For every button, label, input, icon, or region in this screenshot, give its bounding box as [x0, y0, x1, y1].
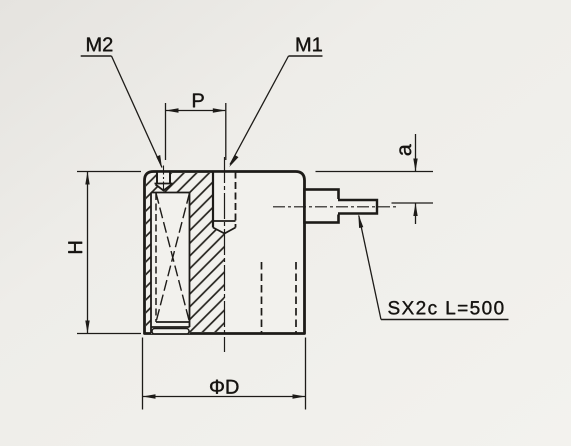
hidden bore lines (dashed) left [261, 262, 263, 333]
dimension H: top arrow [85, 172, 89, 185]
hatch: middle strip between coil and section centerline [190, 193, 225, 333]
dimension P: left arrow [166, 108, 179, 112]
coil bottom edge [156, 321, 190, 323]
label M2 leader arrowhead [156, 155, 162, 168]
coil cavity: white cutout [151, 193, 190, 334]
label M2 underline [81, 55, 112, 57]
label M1 leader arrowhead [229, 155, 238, 167]
threaded hole M1: thread bottom crossbar [213, 220, 236, 222]
coil cavity left wall [150, 193, 152, 334]
dimension H: bottom extension line [77, 333, 141, 335]
dimension H: dimension line [87, 172, 89, 333]
threaded hole M1: right side (hidden, dashed) [235, 172, 237, 228]
hatch: left wall strip [146, 193, 151, 333]
dimension P: left extension line [165, 103, 167, 160]
dimension D: label [210, 380, 238, 394]
dimension D: right extension line [305, 338, 307, 410]
label cable spec leader arrowhead [358, 214, 363, 228]
coil winding cross (X) diagonal 2 [156, 193, 190, 322]
dimension a: lower extension line (cable top) [392, 202, 434, 204]
body outline (cylindrical housing, section view) [145, 172, 305, 334]
label M2 leader line [112, 56, 163, 168]
coil winding cross (X) diagonal 1 [156, 193, 190, 322]
tapped hole M2: slot outline [157, 172, 170, 184]
label M2 text [87, 37, 112, 51]
dimension H: label [68, 242, 82, 253]
cavity inner bottom edge [151, 326, 190, 328]
dimension P: right extension line [225, 103, 227, 160]
dimension a: upper extension line (from body top) [316, 171, 434, 173]
dimension H: bottom arrow [85, 321, 89, 334]
bottom slot (rounded groove) [152, 329, 189, 334]
tapped hole M2: white cutout [155, 173, 173, 191]
threaded hole M1: white cutout [213, 173, 237, 234]
coil left edge (dashed) [155, 193, 157, 322]
threaded hole M1: left side (solid) [212, 172, 214, 228]
label cable spec underline [381, 319, 509, 321]
dimension P: right arrow [213, 108, 226, 112]
threaded hole M1: drill point [213, 228, 236, 234]
centerline of hole M2 [163, 166, 165, 198]
coil right edge [189, 193, 191, 328]
label cable spec text [388, 301, 503, 314]
dimension a: label [399, 144, 411, 155]
dimension D: dimension line [143, 396, 305, 398]
dimension a: upper dimension line with down arrow [415, 134, 417, 171]
connector block on right side [305, 190, 339, 223]
hidden bore lines (dashed) right [295, 262, 297, 333]
cable centerline (dash-dot) [273, 206, 397, 208]
dimension H: top extension line [77, 171, 141, 173]
label M1 underline [289, 55, 323, 57]
label M1 leader line [230, 56, 289, 165]
vertical centerline through M1 / section axis [224, 157, 226, 352]
label cable spec leader line [359, 216, 381, 320]
cable (sheath) white fill over connector edge [337, 199, 378, 215]
dimension P: label [193, 94, 204, 108]
dimension D: left extension line [142, 338, 144, 410]
dimension P: dimension line [166, 110, 225, 112]
label M1 text [297, 38, 322, 52]
tapped hole M2: countersink shoulder and drill point [155, 184, 173, 191]
coil cavity top edge [151, 192, 190, 194]
dimension D: right arrow [293, 394, 306, 398]
cable (sheath) outline [338, 200, 377, 214]
dimension a: lower dimension line with up arrow [415, 204, 417, 225]
hatch: top strip above coil cavity [146, 173, 213, 193]
dimension D: left arrow [143, 394, 156, 398]
